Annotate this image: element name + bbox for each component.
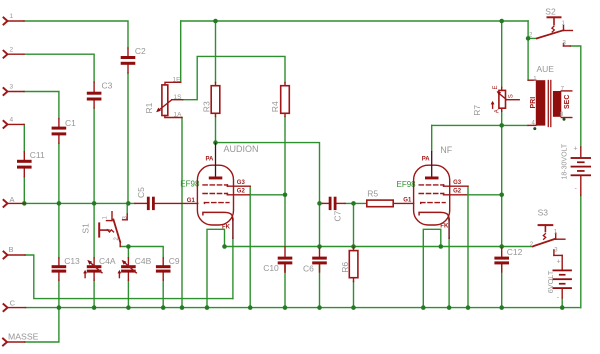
- svg-text:S2: S2: [545, 7, 556, 17]
- svg-text:PA: PA: [206, 157, 215, 163]
- svg-text:C13: C13: [64, 256, 80, 266]
- svg-text:A: A: [10, 195, 15, 204]
- svg-text:1: 1: [10, 13, 14, 20]
- svg-text:1A: 1A: [174, 112, 183, 119]
- svg-text:SEC: SEC: [564, 95, 571, 109]
- svg-text:PRI: PRI: [530, 97, 537, 109]
- svg-text:C11: C11: [30, 150, 45, 160]
- svg-text:R4: R4: [270, 101, 280, 112]
- svg-text:R6: R6: [340, 262, 350, 273]
- svg-text:G2: G2: [237, 189, 246, 195]
- svg-text:C7: C7: [333, 210, 343, 221]
- svg-text:B: B: [9, 245, 14, 254]
- svg-text:NF: NF: [440, 145, 452, 155]
- svg-text:FK: FK: [440, 224, 449, 230]
- svg-text:6VOLT: 6VOLT: [546, 270, 555, 293]
- svg-text:R1: R1: [144, 102, 154, 113]
- svg-text:C6: C6: [303, 264, 314, 274]
- svg-text:MASSE: MASSE: [8, 332, 39, 342]
- svg-text:+: +: [557, 259, 561, 266]
- svg-text:G2: G2: [453, 189, 462, 195]
- svg-text:1E: 1E: [173, 77, 182, 84]
- svg-text:C: C: [10, 298, 16, 307]
- svg-text:S: S: [509, 94, 515, 98]
- svg-text:C12: C12: [507, 247, 523, 257]
- svg-text:2: 2: [10, 46, 14, 53]
- svg-text:G3: G3: [237, 180, 246, 186]
- svg-text:PA: PA: [422, 157, 431, 163]
- svg-text:G3: G3: [453, 180, 462, 186]
- svg-text:A: A: [494, 109, 500, 113]
- svg-text:E: E: [493, 85, 499, 89]
- svg-text:R5: R5: [367, 188, 378, 198]
- svg-text:C9: C9: [169, 256, 180, 266]
- svg-text:1S: 1S: [174, 94, 183, 101]
- svg-text:R3: R3: [202, 101, 212, 112]
- svg-text:C4B: C4B: [135, 256, 152, 266]
- svg-text:18-30VOLT: 18-30VOLT: [562, 143, 569, 179]
- svg-text:C5: C5: [136, 187, 146, 198]
- svg-text:C2: C2: [135, 46, 146, 56]
- svg-text:S3: S3: [538, 208, 549, 218]
- svg-text:C3: C3: [102, 81, 113, 91]
- svg-text:AUDION: AUDION: [224, 144, 259, 154]
- svg-text:C1: C1: [65, 118, 76, 128]
- svg-text:AUE: AUE: [537, 64, 555, 74]
- svg-text:FK: FK: [222, 225, 231, 231]
- svg-text:+: +: [574, 146, 578, 153]
- svg-text:R7: R7: [472, 105, 482, 116]
- svg-text:3: 3: [10, 84, 14, 91]
- svg-text:4: 4: [10, 117, 14, 124]
- svg-text:G1: G1: [187, 198, 196, 204]
- svg-text:C4A: C4A: [99, 256, 116, 266]
- svg-text:G1: G1: [403, 197, 412, 203]
- svg-text:S1: S1: [81, 223, 91, 234]
- svg-text:C10: C10: [263, 263, 279, 273]
